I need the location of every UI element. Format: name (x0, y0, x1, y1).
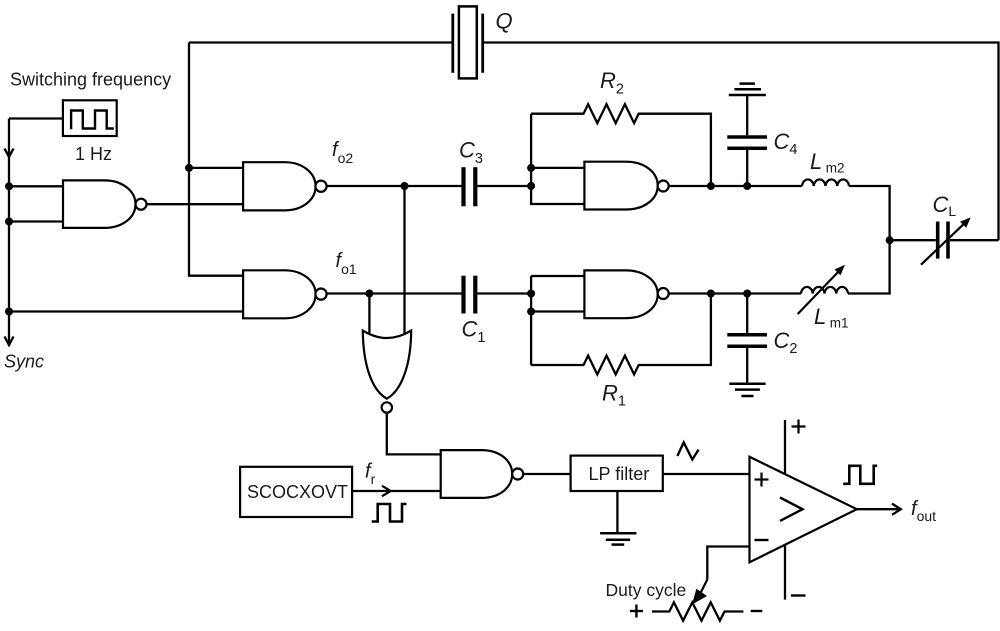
wire minus input to pot (707, 547, 749, 580)
svg-text:Sync: Sync (4, 352, 44, 372)
resistor R2 (531, 104, 711, 186)
pot wiper arrow (701, 580, 707, 593)
svg-text:LP filter: LP filter (589, 464, 650, 484)
wire CL left (890, 239, 936, 241)
svg-text:C3: C3 (459, 138, 483, 168)
pot minus symbol (751, 610, 763, 612)
svg-text:fout: fout (911, 498, 936, 524)
node junction U3 in1 (527, 164, 535, 172)
square wave glyph f_r (372, 504, 407, 522)
node junction U3 signal (527, 182, 535, 190)
node Sync arrow (5, 337, 14, 346)
nand-gate U5 (441, 450, 513, 498)
svg-text:SCOCXOVT: SCOCXOVT (247, 482, 348, 502)
wire LP to ground (616, 491, 618, 533)
comparator minus input symbol (755, 539, 769, 541)
wire U3 output to L_m2 (669, 185, 802, 187)
nand-gate U4 (584, 270, 657, 318)
svg-text:Lm1: Lm1 (814, 304, 849, 331)
ground below LP filter (600, 532, 636, 535)
node junction C1 branch (365, 290, 373, 298)
f_r arrow (382, 486, 391, 496)
wire CL right (950, 239, 999, 241)
wire f_r to U5 (352, 490, 441, 492)
inductor L_m2 (802, 179, 849, 186)
node junction C3 branch (401, 182, 409, 190)
wire L_m2 to CL node (849, 186, 890, 240)
wire NOR output to U5 (387, 413, 441, 455)
wire U3 input network (531, 114, 584, 204)
svg-text:1 Hz: 1 Hz (75, 144, 112, 164)
inductor L_m1 (801, 287, 848, 294)
svg-text:C4: C4 (774, 129, 798, 158)
svg-text:Switching frequency: Switching frequency (10, 70, 171, 90)
wire U4 output to L_m1 (669, 292, 801, 294)
wire U5 output to LP filter (523, 473, 570, 475)
nand-gate U2b f_o1 (243, 270, 316, 318)
capacitor C3 (461, 167, 465, 206)
wire f_o2 input1 (189, 167, 243, 169)
wire NOR input from C1 node (368, 294, 370, 337)
wire f_o2 output to C3 (327, 185, 462, 187)
svg-text:CL: CL (933, 192, 957, 219)
svg-text:fr: fr (365, 461, 376, 488)
wire L_m1 to CL node (848, 240, 890, 293)
box SCOCXOVT (240, 467, 352, 517)
wire U1 output to f_o2 input2 (147, 203, 244, 205)
node junction CL (886, 236, 894, 244)
node arrow down on bus (top) (5, 149, 14, 158)
pot plus symbol (630, 610, 643, 612)
crystal Q (451, 14, 454, 73)
capacitor C4 (727, 135, 767, 139)
capacitor C_L (936, 222, 940, 259)
wire NOR input from C3 node (403, 186, 405, 336)
svg-text:fo1: fo1 (336, 250, 357, 277)
svg-text:Duty cycle: Duty cycle (606, 580, 687, 600)
wire Sync line to f_o1 input2 (9, 310, 243, 312)
ground below C2 (729, 383, 765, 386)
comparator bottom supply (784, 545, 786, 600)
node junction C4 (743, 182, 751, 190)
source box 1 Hz (63, 100, 117, 136)
node bus junction U1 input2 (5, 218, 13, 226)
comparator top supply (784, 420, 786, 474)
L_m1 adjust arrow (798, 269, 841, 314)
wire C1 to U4 (477, 292, 531, 294)
wire LP filter to comparator (663, 473, 750, 475)
C_L adjust arrow (921, 221, 967, 264)
node junction U4 signal (527, 290, 535, 298)
capacitor C2 (727, 333, 767, 337)
svg-text:fo2: fo2 (332, 139, 353, 166)
node bus junction Sync line (5, 308, 13, 316)
svg-text:R2: R2 (600, 68, 624, 98)
svg-text:C2: C2 (774, 328, 798, 357)
comparator plus input symbol (755, 478, 769, 480)
node bus junction U1 input1 (5, 182, 13, 190)
svg-text:Lm2: Lm2 (810, 149, 845, 176)
node junction U4 in2 (527, 308, 535, 316)
wire C3 to U3 (477, 185, 531, 187)
wire crystal feedback vertical (189, 43, 243, 276)
svg-text:C1: C1 (462, 317, 486, 347)
wire left vertical bus (8, 119, 10, 346)
crystal Q wires (189, 41, 453, 43)
wire f_o1 output to C1 (327, 292, 462, 294)
svg-text:Q: Q (496, 9, 513, 34)
square wave glyph f_out (843, 466, 877, 484)
wire comparator output (857, 508, 899, 510)
source square wave glyph (71, 111, 114, 130)
nor-gate V1 (pointing down) (363, 331, 411, 399)
node junction R2 to output (707, 182, 715, 190)
resistor R1 (531, 294, 711, 375)
wire U1 input1 (9, 185, 63, 187)
potentiometer R duty (652, 602, 743, 620)
node junction R1 to output (707, 290, 715, 298)
comparator greater-than symbol (780, 498, 803, 521)
capacitor C1 (461, 276, 465, 314)
wire U1 input2 (9, 220, 63, 222)
svg-text:R1: R1 (602, 381, 626, 410)
wire source box to bus (9, 117, 63, 119)
node junction feedback to f_o2 (185, 164, 193, 172)
nand-gate U3 (584, 162, 657, 210)
wire U4 input network (531, 275, 584, 277)
triangle wave glyph (677, 442, 698, 459)
box LP filter (571, 456, 663, 491)
ground above C4 (729, 94, 766, 97)
node junction C2 (743, 290, 751, 298)
op-amp comparator (750, 457, 857, 563)
nand-gate U1 (63, 180, 136, 228)
nand-gate U2a f_o2 (243, 162, 316, 210)
